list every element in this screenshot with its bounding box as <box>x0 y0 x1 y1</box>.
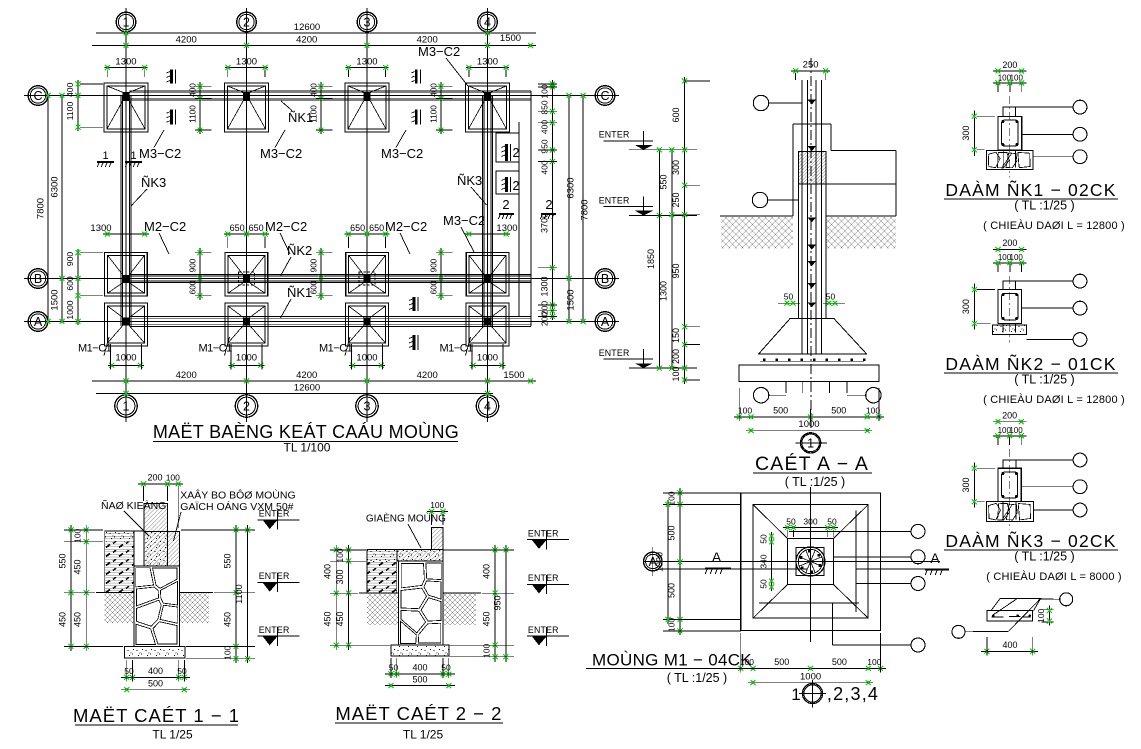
section 2-2 ground line left <box>359 592 399 594</box>
svg-text:TL 1/100: TL 1/100 <box>284 441 331 455</box>
svg-text:6300: 6300 <box>50 176 61 197</box>
svg-text:7800: 7800 <box>580 199 591 220</box>
section A-A grid bubble 1 <box>801 433 821 453</box>
svg-text:1000: 1000 <box>800 672 821 683</box>
section 1-1 left dim chain 550/450 <box>70 525 72 651</box>
section 1-1 wall band top edge line <box>105 530 144 532</box>
section 1-1 bottom dim 500 <box>121 689 190 691</box>
footing M1-C1 grid 3 <box>346 303 389 346</box>
svg-text:200: 200 <box>1002 60 1017 70</box>
dashed pier rect at column B2 <box>239 272 255 285</box>
svg-text:150: 150 <box>671 328 681 343</box>
svg-text:1300: 1300 <box>356 57 377 68</box>
svg-text:300: 300 <box>961 126 971 141</box>
section 2-2 bottom dims 50/400/50 <box>385 673 455 675</box>
svg-text:1: 1 <box>791 685 800 704</box>
svg-text:100: 100 <box>335 548 345 562</box>
svg-text:ENTER: ENTER <box>528 625 559 635</box>
section A-A left dim chain 1850 <box>658 150 660 368</box>
svg-text:,2,3,4: ,2,3,4 <box>827 684 879 704</box>
section A-A floor slab right <box>831 149 896 151</box>
M1 plan second square <box>753 505 868 619</box>
svg-text:500: 500 <box>831 405 846 415</box>
svg-text:1000: 1000 <box>798 419 819 430</box>
svg-text:( CHIEÀU DAØI L = 12800 ): ( CHIEÀU DAØI L = 12800 ) <box>983 393 1125 406</box>
svg-text:M2−C2: M2−C2 <box>265 219 307 234</box>
svg-text:2: 2 <box>243 16 250 30</box>
lintel diagonal edge 1 <box>993 599 1018 616</box>
svg-text:300: 300 <box>671 160 681 175</box>
svg-text:400: 400 <box>1002 640 1017 650</box>
plan left mini chain 900/600/1000 bottom <box>77 249 79 325</box>
svg-text:300: 300 <box>803 517 817 527</box>
beam NK3 along grid 1 <box>120 96 122 326</box>
section A-A hatched beam block <box>798 151 825 184</box>
svg-text:1: 1 <box>807 436 814 450</box>
svg-text:500: 500 <box>412 674 427 684</box>
section 2-2 left wall band <box>367 550 397 594</box>
svg-text:A: A <box>712 549 722 565</box>
svg-text:1000: 1000 <box>356 353 377 364</box>
svg-text:450: 450 <box>482 611 492 626</box>
M1 plan axis horizontal <box>643 561 940 563</box>
section A-A footing trapezoid <box>758 319 866 355</box>
M1 plan callout circle 4 <box>831 603 833 645</box>
svg-text:1: 1 <box>123 400 130 414</box>
svg-text:100: 100 <box>738 405 752 415</box>
lintel diagonal edge 2 <box>1009 599 1041 632</box>
grid bubbles bottom 1-4 <box>115 395 137 417</box>
svg-text:950: 950 <box>492 595 502 610</box>
svg-text:ÑK3: ÑK3 <box>141 175 166 190</box>
beam NK1 along row C <box>129 90 531 92</box>
beam detail NK2 centerline <box>1009 276 1011 343</box>
beam detail NK3 callout circle 3 <box>1033 509 1073 511</box>
svg-text:950: 950 <box>671 263 681 278</box>
section 2-2 bottom dim 500 <box>385 685 455 687</box>
lintel callout circle bottom-left <box>965 630 1009 633</box>
svg-text:650: 650 <box>369 223 384 233</box>
section A-A left dim chain 550/1300 <box>671 150 673 368</box>
footing M1-C1 grid 4 <box>466 303 509 346</box>
svg-text:550: 550 <box>658 174 668 189</box>
svg-text:550: 550 <box>58 553 68 568</box>
section A-A column rebar lines <box>801 80 803 354</box>
grid bubbles top 1-4 <box>116 12 136 32</box>
svg-text:CAÉT A − A: CAÉT A − A <box>755 452 869 475</box>
svg-text:900: 900 <box>429 258 439 272</box>
section A-A column centerline <box>810 58 812 431</box>
beam detail NK3 stirrup <box>1002 472 1018 498</box>
svg-text:50: 50 <box>826 292 836 302</box>
svg-text:4200: 4200 <box>296 370 317 381</box>
section A-A bottom leader lines <box>785 382 787 393</box>
svg-text:B: B <box>601 272 609 286</box>
svg-text:1300: 1300 <box>115 57 136 68</box>
section 1-1 top dims 200/100 <box>138 483 183 485</box>
svg-text:200: 200 <box>1002 411 1017 421</box>
svg-text:1: 1 <box>123 16 130 30</box>
beam detail NK1 callout circle 3 <box>1033 156 1073 158</box>
svg-text:M3−C2: M3−C2 <box>139 146 181 161</box>
svg-text:550: 550 <box>223 553 233 568</box>
svg-text:300: 300 <box>961 477 971 492</box>
beam detail NK1 centerline <box>1009 96 1011 178</box>
M1 plan bottom dims 100/500/500/100 <box>735 667 886 669</box>
plan top dimension 12600 <box>96 32 536 34</box>
section 1-1 left wall band <box>105 531 134 593</box>
svg-text:ÑK3: ÑK3 <box>457 173 482 188</box>
svg-text:100: 100 <box>430 500 444 510</box>
svg-text:50: 50 <box>759 534 769 544</box>
dashed pier rect at column B3 <box>359 272 375 285</box>
svg-text:ENTER: ENTER <box>259 509 290 519</box>
svg-text:1100: 1100 <box>234 584 244 603</box>
svg-text:400: 400 <box>65 82 75 97</box>
lintel top face parallelogram <box>991 599 1041 611</box>
svg-text:50: 50 <box>827 517 837 527</box>
M1 plan section trace lines <box>660 568 807 570</box>
section A-A callout circle bottom-right <box>866 388 881 403</box>
lintel rectangle <box>987 611 1033 622</box>
svg-text:12600: 12600 <box>294 22 320 33</box>
svg-text:MAËT CAÉT 1 − 1: MAËT CAÉT 1 − 1 <box>73 705 240 726</box>
svg-text:A: A <box>34 315 43 329</box>
svg-text:650: 650 <box>249 223 264 233</box>
footing M3-C2 grid 3 row C <box>345 83 389 132</box>
svg-text:( TL :1/25 ): ( TL :1/25 ) <box>667 671 727 685</box>
svg-text:1100: 1100 <box>429 105 439 123</box>
plan top dimension row 4200/4200/4200/1500 <box>92 45 536 47</box>
svg-text:4200: 4200 <box>176 370 197 381</box>
plan left dim chain 7800 <box>47 96 49 322</box>
svg-text:ÑK1: ÑK1 <box>287 285 312 300</box>
section cut flags 1 bay 3-4 row A <box>413 297 416 311</box>
row B footing dims 650/650 at grids 2,3 <box>224 233 269 235</box>
beam detail NK3 dim 300 left <box>973 462 975 507</box>
svg-text:650: 650 <box>230 223 245 233</box>
beam detail NK1 support band <box>986 151 1033 170</box>
svg-text:1300: 1300 <box>90 223 111 234</box>
beam detail NK3 dim 100/100 <box>993 435 1026 437</box>
svg-text:250: 250 <box>671 192 681 207</box>
svg-text:7800: 7800 <box>36 198 47 219</box>
svg-text:( TL :1/25 ): ( TL :1/25 ) <box>785 475 845 489</box>
svg-text:C: C <box>600 89 609 103</box>
svg-text:1300: 1300 <box>658 281 668 301</box>
beam detail NK3 support band <box>987 502 1034 522</box>
svg-text:1500: 1500 <box>50 289 61 310</box>
svg-text:M3−C2: M3−C2 <box>443 213 485 228</box>
svg-text:200: 200 <box>540 312 550 326</box>
svg-text:( TL :1/25 ): ( TL :1/25 ) <box>1014 199 1074 213</box>
section A-A footing rebar dots <box>763 358 766 361</box>
section flag rect 2 upper <box>496 133 519 162</box>
svg-text:( CHIEÀU DAØI L = 12800 ): ( CHIEÀU DAØI L = 12800 ) <box>983 219 1125 232</box>
svg-text:M3−C2: M3−C2 <box>260 146 302 161</box>
svg-text:200: 200 <box>1002 238 1017 248</box>
section A-A left dim chain 600/300/250/950/150/200/100 <box>684 77 686 384</box>
row B footing dim 1300 at grid 4 <box>465 233 510 235</box>
svg-text:2: 2 <box>513 146 520 160</box>
svg-text:M3−C2: M3−C2 <box>381 146 423 161</box>
grid bubbles right C,B,A <box>595 86 615 106</box>
svg-text:950: 950 <box>540 139 550 153</box>
beam detail NK1 dim 200 <box>993 70 1027 72</box>
plan right dim chain 6300/1500 <box>568 96 570 322</box>
svg-text:C: C <box>33 89 42 103</box>
svg-text:450: 450 <box>335 611 345 626</box>
section 1-1 ground line right <box>180 592 214 594</box>
section 2-2 right dim chain 950 <box>505 545 507 662</box>
svg-text:TL 1/25: TL 1/25 <box>403 728 444 742</box>
footing M3-C2 grid 4 row C <box>466 83 510 132</box>
foundation plan: grid axis lines <box>125 8 127 422</box>
svg-text:100: 100 <box>1036 608 1046 622</box>
svg-text:850: 850 <box>540 100 550 114</box>
section A-A pier outline <box>793 123 831 125</box>
section cut flags 1 bay 3-4 row C <box>415 70 418 84</box>
section 1-1 right dim chain 1100 <box>247 525 249 663</box>
svg-text:100: 100 <box>671 366 681 381</box>
section A-A callout circle middle <box>752 192 767 207</box>
svg-text:ÑK2: ÑK2 <box>287 243 312 258</box>
svg-text:ENTER: ENTER <box>528 573 559 583</box>
svg-text:50: 50 <box>786 517 796 527</box>
section A-A callout circle bottom-left <box>753 388 768 403</box>
svg-text:600: 600 <box>188 280 198 294</box>
plan bottom dimension row 4200/4200/4200/1500 <box>92 380 536 382</box>
beam detail NK2 dim 100/100 <box>993 262 1027 264</box>
beam detail NK3 top rect <box>1003 460 1016 468</box>
svg-text:1850: 1850 <box>646 249 656 269</box>
svg-text:TL 1/25: TL 1/25 <box>152 728 193 742</box>
svg-text:1500: 1500 <box>566 289 577 310</box>
svg-text:ENTER: ENTER <box>599 195 630 205</box>
beam detail NK1 stirrup <box>1002 120 1019 146</box>
svg-text:400: 400 <box>482 564 492 579</box>
svg-text:50: 50 <box>784 292 794 302</box>
svg-text:400: 400 <box>309 83 319 97</box>
lintel dim 100 right <box>1048 606 1050 626</box>
beam detail NK2 callout circle 1 <box>1016 280 1074 282</box>
svg-text:M3−C2: M3−C2 <box>418 44 460 59</box>
mini dim chains row B in bays <box>199 248 201 300</box>
beam NK1 along row A <box>129 316 531 318</box>
svg-text:3700: 3700 <box>540 213 550 233</box>
svg-text:100: 100 <box>1010 253 1024 262</box>
mini dim chains row C in bays <box>199 82 201 134</box>
svg-text:ENTER: ENTER <box>259 571 290 581</box>
svg-text:12600: 12600 <box>294 383 320 394</box>
section 2-2 right dim chain 400/450/100 <box>494 545 496 662</box>
svg-text:A: A <box>930 550 940 566</box>
beam detail NK3 dim 200 <box>993 421 1026 423</box>
M1 plan callout circle 3 <box>856 583 911 585</box>
footing row B grid 3 <box>346 253 389 297</box>
svg-text:450: 450 <box>223 612 233 627</box>
footing M1-C1 grid 2 <box>225 303 268 346</box>
svg-text:XAÂY BO BÔØ MOÙNG: XAÂY BO BÔØ MOÙNG <box>180 489 295 502</box>
section flag rect 2 lower <box>496 171 519 194</box>
row A footing dims 1000 <box>108 364 144 366</box>
beam detail NK2 notch lines below <box>1002 324 1004 333</box>
beam detail NK3 callout circle 1 <box>1016 459 1073 461</box>
svg-text:900: 900 <box>309 258 319 272</box>
beam detail NK3 callout circle 2 <box>1021 486 1073 488</box>
beam detail NK1 notch lines below <box>1002 150 1004 168</box>
svg-text:100: 100 <box>482 644 492 658</box>
beam detail NK2 dim 200 <box>993 248 1027 250</box>
M1 plan outer square <box>741 493 881 631</box>
M1 plan bottom dim 1000 <box>748 682 873 684</box>
section 1-1 right dim chain 550/450/100 <box>235 525 237 663</box>
svg-text:2: 2 <box>545 197 552 212</box>
svg-text:100: 100 <box>1010 73 1024 82</box>
section 1-1 left dim chain 100/450/450 <box>85 525 87 651</box>
lintel callout circle top-right <box>1041 598 1060 600</box>
svg-text:450: 450 <box>73 612 83 627</box>
M1 plan callout circle 2 <box>834 556 912 558</box>
svg-text:( CHIEÀU DAØI L = 8000 ): ( CHIEÀU DAØI L = 8000 ) <box>986 570 1122 583</box>
svg-text:4: 4 <box>484 400 491 414</box>
svg-text:4200: 4200 <box>296 35 317 46</box>
row C footing width dims 1300 <box>104 67 147 69</box>
svg-text:900: 900 <box>65 252 75 267</box>
section 2-2 ground line right <box>443 592 481 594</box>
row B footing dim 1300 at grid 1 <box>103 233 149 235</box>
svg-text:( TL :1/25 ): ( TL :1/25 ) <box>1014 373 1074 387</box>
section A-A bottom dims 100/500/500/100 <box>734 416 884 418</box>
M1 plan axis vertical centerline <box>810 487 812 642</box>
svg-text:DAÀM ÑK2 − 01CK: DAÀM ÑK2 − 01CK <box>945 353 1116 374</box>
beam detail NK1 callout circle 1 <box>1015 106 1073 108</box>
plan left dim chain 6300/1500 <box>61 96 63 322</box>
beam detail NK2 top rect <box>1003 281 1015 289</box>
section 1-1 stone foundation <box>134 566 180 646</box>
section 1-1 dado beam concrete section <box>144 531 168 566</box>
M1 plan grid bubble A left <box>644 552 663 571</box>
beam detail NK1 dim 300 left <box>973 110 975 156</box>
svg-text:ENTER: ENTER <box>599 348 630 358</box>
beam detail NK2 support band <box>993 325 1027 335</box>
svg-text:400: 400 <box>540 160 550 174</box>
section A-A ground line and hatch right <box>826 215 896 217</box>
svg-text:1300: 1300 <box>477 57 498 68</box>
section 2-2 brick stub <box>432 528 444 550</box>
svg-text:250: 250 <box>803 60 819 71</box>
beam detail NK3 centerline <box>1009 449 1011 530</box>
svg-text:( TL :1/25 ): ( TL :1/25 ) <box>1014 550 1074 564</box>
svg-text:1000: 1000 <box>477 353 498 364</box>
svg-text:400: 400 <box>323 564 333 579</box>
svg-text:MOÙNG M1 − 04CK: MOÙNG M1 − 04CK <box>592 651 752 670</box>
svg-text:900: 900 <box>188 258 198 272</box>
svg-text:3: 3 <box>364 16 371 30</box>
svg-text:1000: 1000 <box>65 300 75 319</box>
svg-text:DAÀM ÑK1 − 02CK: DAÀM ÑK1 − 02CK <box>945 179 1116 200</box>
section 1-1 bottom dims 50/400/50 <box>121 676 190 678</box>
plan right dim chain small values <box>551 80 553 320</box>
section A-A footing mat <box>739 365 879 382</box>
svg-text:2: 2 <box>502 197 509 212</box>
M1 plan left dims 100/500/500/100 <box>679 488 681 635</box>
M1 plan column section circle <box>796 547 825 576</box>
section 1-1 brick extension right <box>168 531 180 566</box>
footing M3-C2 grid 1 row C <box>104 83 148 132</box>
section 2-2 left dim chain 100/300/450 <box>348 545 350 650</box>
svg-text:500: 500 <box>148 679 163 689</box>
svg-text:M2−C2: M2−C2 <box>385 219 427 234</box>
svg-text:450: 450 <box>323 611 333 626</box>
beam detail NK1 top rect <box>1003 107 1015 116</box>
svg-text:400: 400 <box>540 120 550 134</box>
svg-text:1100: 1100 <box>65 102 75 121</box>
section 1-1 ground line left <box>96 592 134 594</box>
svg-text:ENTER: ENTER <box>599 130 630 140</box>
svg-text:2: 2 <box>243 400 250 414</box>
svg-text:100: 100 <box>866 405 880 415</box>
lintel rebar hooks <box>992 616 1004 618</box>
footing row B grid 4 <box>466 253 509 297</box>
svg-text:GIAÈNG MOÙNG: GIAÈNG MOÙNG <box>366 512 446 525</box>
M1 plan pier dims 50/340/50 left <box>771 532 773 591</box>
footing row B grid 1 <box>105 253 148 297</box>
section A-A column width dim 250 <box>791 70 830 72</box>
beam detail NK2 callout circle 3 <box>1027 339 1074 341</box>
svg-text:600: 600 <box>429 280 439 294</box>
section 1-1 brick pier <box>144 503 168 531</box>
svg-text:500: 500 <box>774 657 789 667</box>
section A-A 50 dims at pier <box>778 302 800 304</box>
section A-A pier below beam <box>797 184 799 318</box>
svg-text:4200: 4200 <box>417 370 438 381</box>
beam detail NK3 notch lines below <box>1002 502 1004 520</box>
beam detail NK2 main section rect <box>998 290 1022 324</box>
svg-text:1300: 1300 <box>540 276 550 296</box>
beam NK2 along row B <box>129 274 531 276</box>
svg-text:600: 600 <box>65 276 75 291</box>
svg-text:MAËT CAÉT 2 − 2: MAËT CAÉT 2 − 2 <box>335 703 502 724</box>
svg-text:ENTER: ENTER <box>528 528 559 538</box>
svg-text:1300: 1300 <box>496 223 517 234</box>
svg-text:100: 100 <box>223 645 233 659</box>
svg-text:1000: 1000 <box>115 353 136 364</box>
M1 plan pier square <box>788 539 834 585</box>
svg-text:4: 4 <box>484 16 491 30</box>
M1 plan pyramid diagonals <box>753 505 788 539</box>
M1 plan callout circle 1 <box>789 530 911 532</box>
svg-text:200: 200 <box>671 349 681 364</box>
section A-A bottom dim 1000 <box>746 430 872 432</box>
svg-text:6300: 6300 <box>566 177 577 198</box>
svg-text:3: 3 <box>364 400 371 414</box>
svg-text:400: 400 <box>188 83 198 97</box>
svg-text:450: 450 <box>73 559 83 574</box>
svg-text:A: A <box>601 315 610 329</box>
section A-A callout circle top <box>753 95 768 110</box>
section 2-2 concrete pad <box>391 645 449 656</box>
svg-text:300: 300 <box>961 299 971 314</box>
svg-text:600: 600 <box>671 107 681 122</box>
svg-text:MAËT BAÈNG KEÁT CAÁU MOÙNG: MAËT BAÈNG KEÁT CAÁU MOÙNG <box>153 421 459 442</box>
section 1-1 concrete pad <box>125 646 185 658</box>
footing M1-C1 grid 1 <box>105 303 148 346</box>
svg-text:1000: 1000 <box>236 353 257 364</box>
svg-text:400: 400 <box>148 666 163 676</box>
svg-text:1500: 1500 <box>500 33 521 44</box>
svg-text:1300: 1300 <box>236 57 257 68</box>
